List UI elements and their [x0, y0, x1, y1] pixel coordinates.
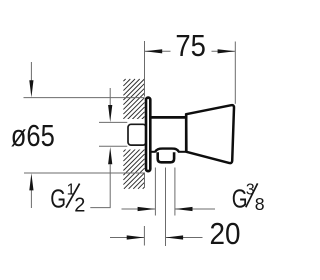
arrow 20 right (pointing left) [166, 235, 184, 239]
arrow 20 left (pointing right) [127, 235, 145, 239]
ext line 20 left (wall face stub) [143, 226, 145, 246]
ext line: 75 right [234, 42, 236, 104]
wall face line lower [144, 173, 146, 188]
wall face line [144, 41, 146, 97]
outlet dome [155, 149, 179, 152]
svg-text:8: 8 [255, 194, 265, 214]
arrow G3/8 left (pointing right) [138, 207, 156, 211]
neck top line [150, 116, 186, 119]
svg-text:75: 75 [175, 29, 206, 63]
dim line ø65 vertical bottom [30, 190, 32, 208]
label G3/8 [232, 182, 265, 215]
G1/2 dim line lower + leader [90, 164, 110, 208]
pipe ext line top [99, 121, 127, 123]
arrow ø65 bottom [29, 173, 33, 190]
G3/8 dim lines [122, 208, 156, 210]
G1/2 dim line upper [109, 88, 111, 106]
wall hatching [123, 79, 145, 189]
neck bottom line right [178, 151, 186, 153]
pipe ext line bottom [99, 145, 127, 147]
ext line outlet left [154, 168, 156, 216]
pipe in wall (G1/2 tail) [128, 124, 146, 145]
arrow G1/2 top [108, 105, 112, 122]
svg-text:ø65: ø65 [11, 119, 55, 153]
arrow G1/2 bottom [108, 147, 112, 164]
ext line outlet right [174, 168, 176, 216]
cone left edge [185, 113, 188, 151]
dim line 75 [145, 50, 235, 52]
arrow 75 right [218, 49, 236, 53]
svg-text:G: G [50, 183, 66, 213]
dim line ø65 vertical top [30, 62, 32, 81]
label G1/2 [50, 182, 85, 217]
dim 20 lines [110, 237, 144, 239]
flange (wall escutcheon) [146, 98, 150, 172]
dim ext line: ø65 top [24, 97, 145, 99]
arrow ø65 top [29, 80, 33, 97]
svg-text:20: 20 [210, 217, 241, 251]
ext line outlet axis [165, 168, 167, 247]
arrow G3/8 right (pointing left) [175, 207, 193, 211]
outlet nut [158, 152, 174, 162]
neck bottom line left [150, 151, 156, 153]
cone body [186, 105, 234, 163]
dim ext line: ø65 bottom [24, 172, 145, 174]
svg-text:2: 2 [74, 194, 85, 216]
arrow 75 left [145, 49, 163, 53]
